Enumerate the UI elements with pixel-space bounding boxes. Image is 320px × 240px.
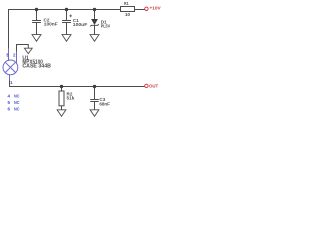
svg-text:51k: 51k (67, 96, 75, 101)
svg-text:6: 6 (8, 106, 11, 111)
svg-text:NC: NC (14, 100, 20, 105)
svg-text:CASE 344B: CASE 344B (22, 63, 51, 69)
svg-text:68nF: 68nF (99, 101, 110, 106)
svg-text:1: 1 (10, 80, 13, 85)
svg-text:10: 10 (125, 12, 131, 17)
svg-text:5: 5 (8, 100, 11, 105)
svg-text:NC: NC (14, 106, 20, 111)
svg-text:OUT: OUT (149, 84, 158, 89)
svg-text:+10V: +10V (150, 6, 162, 11)
svg-text:NC: NC (14, 93, 20, 98)
svg-text:PL5V: PL5V (101, 24, 111, 29)
svg-text:100uF: 100uF (73, 22, 88, 27)
svg-text:100nF: 100nF (44, 22, 58, 27)
svg-text:2: 2 (13, 52, 16, 57)
svg-text:R1: R1 (124, 1, 129, 6)
svg-text:4: 4 (8, 93, 11, 98)
